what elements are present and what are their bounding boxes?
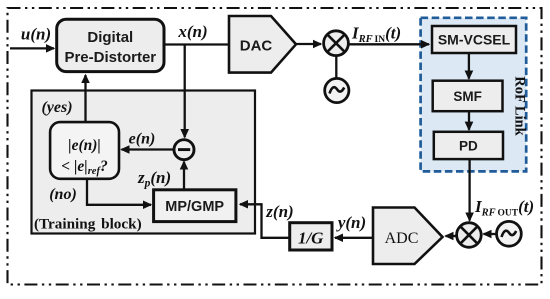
svg-text:Pre-Distorter: Pre-Distorter: [64, 49, 156, 66]
mixer M2 (downconversion): [457, 223, 482, 248]
gain block 1/G: [290, 223, 332, 250]
svg-text:|e(n)|: |e(n)|: [68, 137, 101, 154]
SMF block: [433, 81, 503, 112]
wire: mixer2 to ADC: [446, 235, 457, 237]
wire: mixer1 to oscillator1: [335, 56, 337, 79]
svg-text:x(n): x(n): [177, 22, 207, 41]
wire: MP/GMP up to subtractor, z_p(n): [183, 162, 185, 190]
svg-text:ADC: ADC: [385, 230, 419, 247]
SM-VCSEL block: [432, 26, 516, 53]
oscillator LO2: [497, 221, 522, 246]
wire: x(n) branch down to subtractor: [184, 45, 186, 138]
ADC converter block: [373, 208, 443, 265]
op block: Digital Pre-Distorter U1: [57, 19, 164, 71]
svg-text:(no): (no): [49, 186, 77, 203]
svg-text:e(n): e(n): [129, 131, 156, 148]
wire: u(n) input arrow into DPD: [10, 47, 54, 49]
svg-text:DAC: DAC: [240, 38, 273, 55]
svg-text:y(n): y(n): [336, 213, 366, 232]
svg-text:u(n): u(n): [21, 25, 51, 44]
MP/GMP block: [154, 190, 236, 222]
training block container: [32, 91, 256, 234]
wire: PD down to mixer2: [468, 159, 470, 221]
wire: x(n) from DPD to DAC: [164, 43, 229, 45]
wire: oscillator2 to mixer2: [484, 233, 497, 235]
svg-text:Digital: Digital: [87, 29, 133, 46]
subtractor node: [174, 140, 194, 160]
svg-text:IRF IN(t): IRF IN(t): [351, 24, 401, 46]
svg-text:RoF Link: RoF Link: [512, 76, 528, 136]
wire: I_RF IN(t) to SM-VCSEL: [348, 43, 429, 45]
wire: 1/G to MP/GMP, z(n): [240, 204, 290, 238]
svg-text:zp(n): zp(n): [137, 168, 171, 190]
svg-text:IRF OUT(t): IRF OUT(t): [474, 197, 534, 219]
oscillator LO1: [325, 78, 349, 102]
wire: comparator (yes) up to DPD: [84, 75, 86, 122]
PD block: [434, 132, 503, 159]
wire: comparator (no) to MP/GMP: [87, 179, 151, 205]
svg-text:z(n): z(n): [265, 202, 293, 221]
DAC converter block: [229, 16, 296, 73]
wire: subtractor to comparator, e(n): [122, 148, 174, 150]
svg-text:PD: PD: [459, 139, 478, 154]
wire: SM-VCSEL to SMF: [468, 53, 470, 79]
wire: DAC to mixer1: [296, 43, 321, 45]
svg-text:SMF: SMF: [453, 89, 482, 104]
svg-text:(yes): (yes): [41, 99, 72, 116]
svg-text:1/G: 1/G: [298, 229, 324, 248]
svg-text:(Training block): (Training block): [34, 215, 142, 232]
wire: ADC to 1/G, y(n): [335, 237, 373, 239]
svg-text:< |e|ref?: < |e|ref?: [61, 158, 108, 177]
svg-text:MP/GMP: MP/GMP: [165, 199, 224, 215]
comparator block |e(n)| < |e|ref ?: [50, 122, 119, 179]
wire: SMF to PD: [468, 111, 470, 130]
mixer M1 (upconversion): [324, 31, 349, 56]
RoF Link container (blue dashed): [421, 18, 527, 172]
svg-text:SM-VCSEL: SM-VCSEL: [438, 32, 511, 48]
